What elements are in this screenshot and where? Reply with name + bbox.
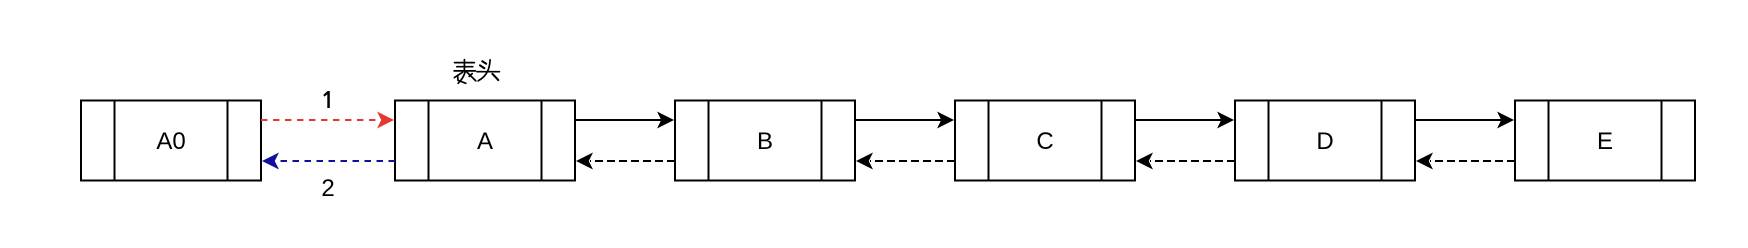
node E box <box>1515 101 1695 181</box>
solid arrow D -> E <box>1415 112 1514 129</box>
dashed arrow C -> B <box>856 153 955 170</box>
solid arrow B -> C <box>855 112 954 129</box>
svg-text:C: C <box>1036 128 1053 155</box>
arrow 1: red dashed A0 -> A <box>261 112 394 129</box>
svg-text:A: A <box>477 128 493 155</box>
svg-text:B: B <box>757 128 773 155</box>
node A0 box <box>81 101 261 181</box>
dashed arrow E -> D <box>1416 153 1515 170</box>
head label 表头 (drawn as strokes) <box>454 60 499 84</box>
label 1 <box>323 91 330 108</box>
dashed arrow D -> C <box>1136 153 1235 170</box>
dashed arrow B -> A <box>576 153 675 170</box>
node D box <box>1235 101 1415 181</box>
solid arrow A -> B <box>575 112 674 129</box>
svg-text:D: D <box>1316 128 1333 155</box>
svg-text:E: E <box>1597 128 1613 155</box>
svg-text:2: 2 <box>321 175 334 202</box>
svg-text:A0: A0 <box>156 128 185 155</box>
arrow 2: blue dashed A -> A0 <box>262 153 395 170</box>
node C box <box>955 101 1135 181</box>
node B box <box>675 101 855 181</box>
node A (head) box <box>395 101 575 181</box>
solid arrow C -> D <box>1135 112 1234 129</box>
